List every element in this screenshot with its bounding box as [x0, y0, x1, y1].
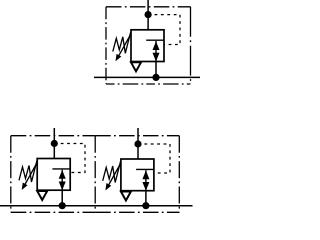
drain triangle valve 1 — [131, 62, 141, 71]
internal port bar valve 3 — [136, 168, 154, 170]
flow path arrow (double headed) valve 2 — [59, 170, 66, 191]
internal port bar valve 1 — [146, 39, 164, 41]
spring valve 1 — [113, 32, 131, 53]
internal port bar valve 2 — [52, 168, 70, 170]
drain triangle valve 2 — [37, 191, 47, 200]
wire: supply line into valve 1 — [147, 0, 149, 30]
adjustment arrow valve 2 — [25, 163, 37, 184]
valve body square valve 1 — [131, 30, 164, 62]
flow path arrow (double headed) valve 3 — [142, 170, 149, 191]
pilot line (dashed) valve 3 — [138, 144, 170, 173]
enclosure frame (dash-dot) valve 3 — [95, 136, 179, 213]
node: outlet junction valve 1 — [152, 74, 159, 81]
wire: valve 1 outlet to tank line — [155, 62, 157, 78]
wire: port stub valve 3 — [137, 128, 139, 159]
node: inlet junction valve 1 — [145, 11, 152, 18]
valve body square valve 2 — [37, 159, 70, 191]
adjustment arrow valve 1 — [119, 34, 131, 55]
wire: valve 2 outlet to tank line — [61, 190, 63, 206]
enclosure frame (dash-dot) valve 1 — [106, 7, 191, 84]
wire: tank line (top) — [94, 76, 200, 78]
wire: tank line (bottom, shared) — [0, 205, 193, 207]
valve body square valve 3 — [121, 159, 154, 191]
node: outlet junction valve 2 — [59, 202, 66, 209]
drain triangle valve 3 — [121, 192, 131, 201]
pilot line (dashed) valve 1 — [148, 15, 180, 45]
spring valve 3 — [103, 161, 121, 182]
node: outlet junction valve 3 — [142, 202, 149, 209]
enclosure frame (dash-dot) valve 2 — [11, 136, 95, 213]
wire: valve 3 outlet to tank line — [145, 191, 147, 206]
flow path arrow (double headed) valve 1 — [153, 41, 160, 62]
pilot line (dashed) valve 2 — [54, 144, 85, 173]
node: inlet junction valve 2 — [51, 140, 58, 147]
spring valve 2 — [19, 161, 37, 182]
adjustment arrow valve 3 — [109, 164, 121, 185]
wire: port stub valve 2 — [53, 128, 55, 159]
node: inlet junction valve 3 — [134, 140, 141, 147]
